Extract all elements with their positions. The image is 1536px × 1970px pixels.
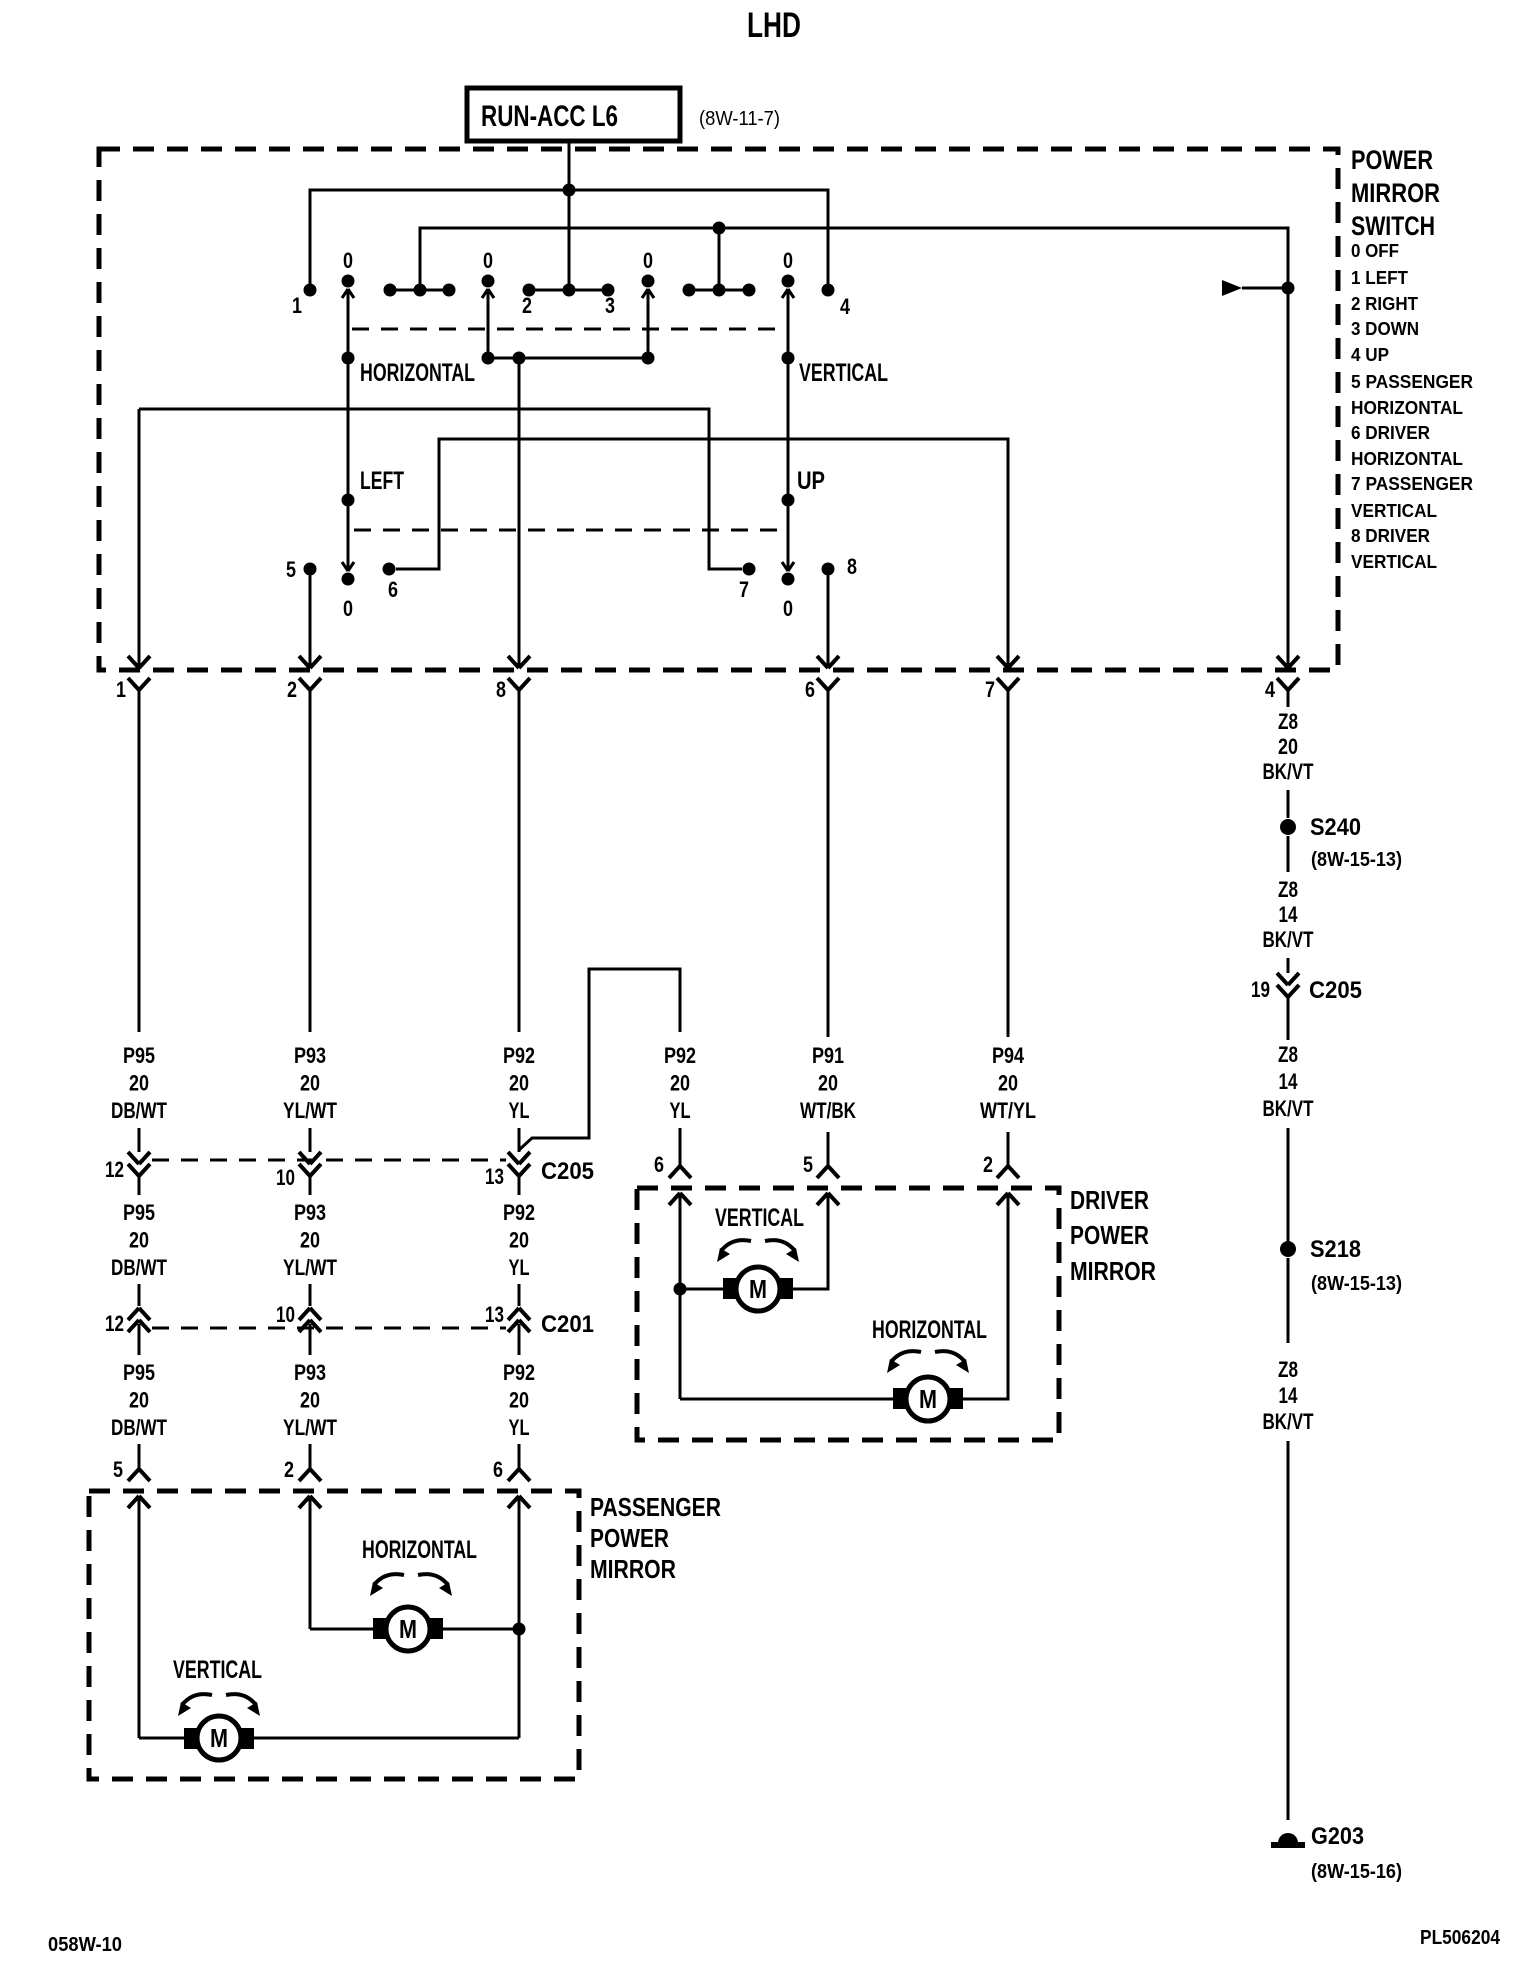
svg-text:P94: P94 bbox=[992, 1043, 1025, 1068]
svg-text:HORIZONTAL: HORIZONTAL bbox=[1351, 398, 1463, 418]
svg-text:6: 6 bbox=[388, 577, 398, 602]
svg-text:M: M bbox=[210, 1723, 228, 1753]
svg-text:7: 7 bbox=[739, 577, 749, 602]
svg-text:20: 20 bbox=[818, 1071, 838, 1096]
svg-text:BK/VT: BK/VT bbox=[1263, 1409, 1314, 1434]
svg-text:YL/WT: YL/WT bbox=[283, 1098, 337, 1123]
svg-text:M: M bbox=[749, 1274, 767, 1304]
svg-text:14: 14 bbox=[1279, 1069, 1299, 1094]
svg-text:MIRROR: MIRROR bbox=[1070, 1256, 1156, 1286]
svg-text:10: 10 bbox=[276, 1165, 295, 1190]
svg-text:LEFT: LEFT bbox=[360, 467, 404, 495]
svg-text:P93: P93 bbox=[294, 1200, 326, 1225]
svg-text:VERTICAL: VERTICAL bbox=[173, 1656, 262, 1684]
svg-text:8: 8 bbox=[496, 677, 506, 702]
svg-text:4: 4 bbox=[840, 294, 851, 319]
svg-text:20: 20 bbox=[509, 1388, 529, 1413]
svg-text:YL: YL bbox=[509, 1098, 530, 1123]
svg-text:Z8: Z8 bbox=[1278, 877, 1298, 902]
svg-text:2 RIGHT: 2 RIGHT bbox=[1351, 294, 1418, 314]
svg-text:PL506204: PL506204 bbox=[1420, 1927, 1501, 1949]
svg-text:VERTICAL: VERTICAL bbox=[1351, 552, 1437, 572]
svg-text:(8W-15-13): (8W-15-13) bbox=[1311, 849, 1402, 871]
svg-text:20: 20 bbox=[998, 1071, 1018, 1096]
svg-text:5: 5 bbox=[803, 1152, 813, 1177]
svg-text:MIRROR: MIRROR bbox=[590, 1554, 676, 1584]
svg-text:5: 5 bbox=[113, 1457, 123, 1482]
svg-text:VERTICAL: VERTICAL bbox=[715, 1204, 804, 1232]
svg-text:0: 0 bbox=[483, 248, 493, 273]
svg-text:0: 0 bbox=[783, 596, 793, 621]
svg-text:20: 20 bbox=[129, 1388, 149, 1413]
svg-text:M: M bbox=[399, 1614, 417, 1644]
svg-text:(8W-11-7): (8W-11-7) bbox=[699, 108, 780, 130]
svg-text:P95: P95 bbox=[123, 1360, 155, 1385]
svg-text:YL/WT: YL/WT bbox=[283, 1415, 337, 1440]
svg-text:0: 0 bbox=[643, 248, 653, 273]
svg-text:P92: P92 bbox=[503, 1043, 535, 1068]
svg-text:20: 20 bbox=[670, 1071, 690, 1096]
svg-text:6: 6 bbox=[654, 1152, 664, 1177]
svg-text:G203: G203 bbox=[1311, 1823, 1364, 1850]
svg-text:POWER: POWER bbox=[1351, 145, 1433, 175]
svg-text:7 PASSENGER: 7 PASSENGER bbox=[1351, 474, 1473, 494]
svg-text:LHD: LHD bbox=[747, 6, 801, 45]
svg-text:4 UP: 4 UP bbox=[1351, 345, 1389, 365]
svg-text:8: 8 bbox=[847, 554, 857, 579]
svg-text:5 PASSENGER: 5 PASSENGER bbox=[1351, 372, 1473, 392]
svg-text:19: 19 bbox=[1251, 977, 1270, 1002]
svg-text:POWER: POWER bbox=[1070, 1220, 1149, 1250]
svg-text:P93: P93 bbox=[294, 1043, 326, 1068]
svg-text:5: 5 bbox=[286, 557, 296, 582]
svg-text:YL: YL bbox=[509, 1415, 530, 1440]
svg-text:1: 1 bbox=[292, 293, 302, 318]
svg-text:20: 20 bbox=[509, 1071, 529, 1096]
svg-text:Z8: Z8 bbox=[1278, 1357, 1298, 1382]
svg-text:12: 12 bbox=[105, 1157, 124, 1182]
svg-text:VERTICAL: VERTICAL bbox=[1351, 501, 1437, 521]
svg-text:P92: P92 bbox=[503, 1360, 535, 1385]
svg-text:S218: S218 bbox=[1310, 1236, 1361, 1263]
svg-text:14: 14 bbox=[1279, 902, 1299, 927]
svg-text:C205: C205 bbox=[1309, 977, 1362, 1004]
svg-text:P93: P93 bbox=[294, 1360, 326, 1385]
svg-text:YL: YL bbox=[670, 1098, 691, 1123]
svg-text:0: 0 bbox=[343, 248, 353, 273]
svg-text:(8W-15-13): (8W-15-13) bbox=[1311, 1273, 1402, 1295]
svg-text:2: 2 bbox=[983, 1152, 993, 1177]
svg-text:WT/YL: WT/YL bbox=[980, 1098, 1036, 1123]
svg-text:S240: S240 bbox=[1310, 814, 1361, 841]
svg-text:20: 20 bbox=[129, 1071, 149, 1096]
svg-text:BK/VT: BK/VT bbox=[1263, 759, 1314, 784]
svg-text:20: 20 bbox=[300, 1388, 320, 1413]
svg-text:YL: YL bbox=[509, 1255, 530, 1280]
svg-text:2: 2 bbox=[522, 293, 532, 318]
svg-text:SWITCH: SWITCH bbox=[1351, 211, 1435, 241]
svg-text:C205: C205 bbox=[541, 1158, 594, 1185]
svg-text:C201: C201 bbox=[541, 1311, 594, 1338]
svg-text:HORIZONTAL: HORIZONTAL bbox=[362, 1536, 477, 1564]
svg-text:0: 0 bbox=[783, 248, 793, 273]
svg-text:4: 4 bbox=[1265, 677, 1276, 702]
svg-text:20: 20 bbox=[129, 1228, 149, 1253]
svg-text:6: 6 bbox=[805, 677, 815, 702]
svg-text:BK/VT: BK/VT bbox=[1263, 1096, 1314, 1121]
svg-text:VERTICAL: VERTICAL bbox=[799, 359, 888, 387]
svg-text:14: 14 bbox=[1279, 1383, 1299, 1408]
svg-text:P95: P95 bbox=[123, 1043, 155, 1068]
svg-text:UP: UP bbox=[797, 467, 825, 495]
svg-text:POWER: POWER bbox=[590, 1523, 669, 1553]
svg-text:20: 20 bbox=[1278, 734, 1298, 759]
svg-text:RUN-ACC L6: RUN-ACC L6 bbox=[481, 100, 618, 133]
svg-text:DRIVER: DRIVER bbox=[1070, 1185, 1149, 1215]
svg-text:0 OFF: 0 OFF bbox=[1351, 241, 1399, 261]
svg-text:13: 13 bbox=[485, 1164, 504, 1189]
svg-text:DB/WT: DB/WT bbox=[111, 1098, 167, 1123]
svg-text:20: 20 bbox=[300, 1071, 320, 1096]
svg-text:WT/BK: WT/BK bbox=[800, 1098, 856, 1123]
svg-text:P92: P92 bbox=[503, 1200, 535, 1225]
svg-text:20: 20 bbox=[509, 1228, 529, 1253]
svg-text:10: 10 bbox=[276, 1302, 295, 1327]
svg-text:3: 3 bbox=[605, 293, 615, 318]
svg-text:8 DRIVER: 8 DRIVER bbox=[1351, 526, 1430, 546]
svg-text:0: 0 bbox=[343, 596, 353, 621]
svg-text:HORIZONTAL: HORIZONTAL bbox=[1351, 449, 1463, 469]
svg-text:(8W-15-16): (8W-15-16) bbox=[1311, 1861, 1402, 1883]
svg-text:P95: P95 bbox=[123, 1200, 155, 1225]
svg-text:P91: P91 bbox=[812, 1043, 844, 1068]
svg-text:DB/WT: DB/WT bbox=[111, 1255, 167, 1280]
svg-text:20: 20 bbox=[300, 1228, 320, 1253]
svg-text:DB/WT: DB/WT bbox=[111, 1415, 167, 1440]
svg-text:2: 2 bbox=[287, 677, 297, 702]
svg-text:7: 7 bbox=[985, 677, 995, 702]
svg-text:12: 12 bbox=[105, 1311, 124, 1336]
svg-text:6 DRIVER: 6 DRIVER bbox=[1351, 423, 1430, 443]
svg-text:HORIZONTAL: HORIZONTAL bbox=[360, 359, 475, 387]
svg-text:M: M bbox=[919, 1384, 937, 1414]
svg-text:Z8: Z8 bbox=[1278, 1042, 1298, 1067]
svg-text:PASSENGER: PASSENGER bbox=[590, 1492, 721, 1522]
svg-text:1 LEFT: 1 LEFT bbox=[1351, 268, 1408, 288]
svg-text:HORIZONTAL: HORIZONTAL bbox=[872, 1316, 987, 1344]
svg-text:1: 1 bbox=[116, 677, 126, 702]
svg-text:YL/WT: YL/WT bbox=[283, 1255, 337, 1280]
svg-text:13: 13 bbox=[485, 1302, 504, 1327]
svg-text:BK/VT: BK/VT bbox=[1263, 927, 1314, 952]
svg-text:2: 2 bbox=[284, 1457, 294, 1482]
svg-text:3 DOWN: 3 DOWN bbox=[1351, 319, 1419, 339]
svg-text:MIRROR: MIRROR bbox=[1351, 178, 1440, 208]
svg-text:058W-10: 058W-10 bbox=[48, 1934, 122, 1956]
svg-text:6: 6 bbox=[493, 1457, 503, 1482]
svg-text:Z8: Z8 bbox=[1278, 709, 1298, 734]
svg-text:P92: P92 bbox=[664, 1043, 696, 1068]
